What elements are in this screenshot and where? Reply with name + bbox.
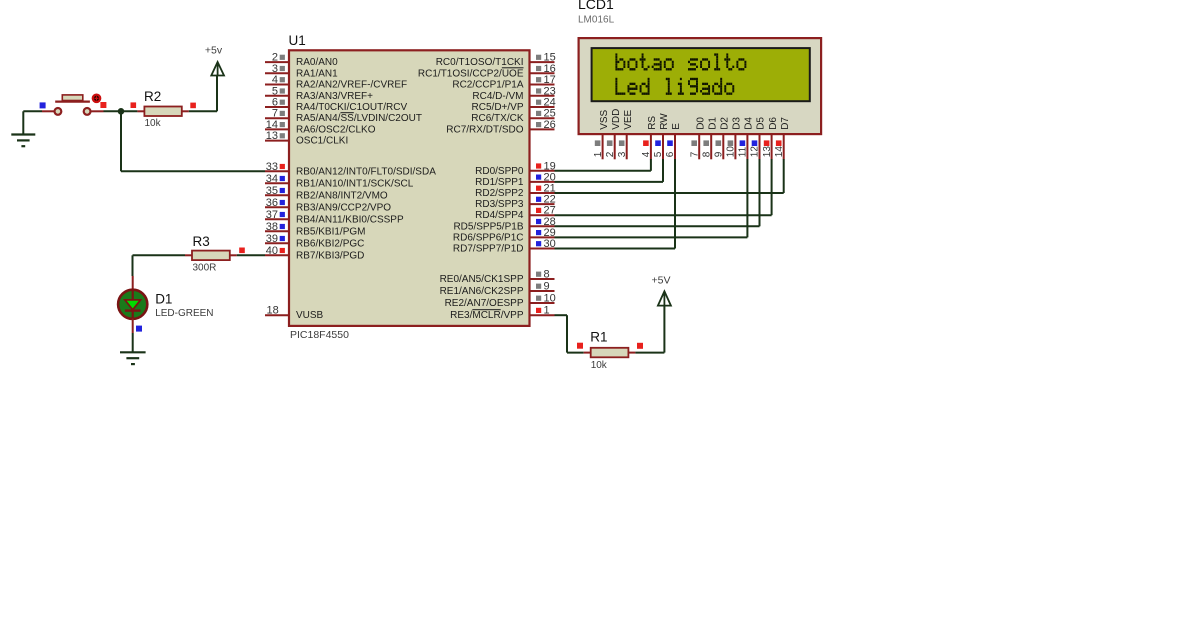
pin 36 (RB block)	[265, 197, 289, 209]
pin 40 (RB block)	[265, 245, 289, 257]
LCD screen	[592, 48, 810, 101]
svg-text:D1: D1	[707, 117, 718, 130]
LCD pin 5 RW	[653, 113, 670, 160]
wire button to junction to R2	[104, 110, 138, 112]
svg-text:4: 4	[272, 74, 278, 86]
svg-text:RA5/AN4/SS/LVDIN/C2OUT: RA5/AN4/SS/LVDIN/C2OUT	[296, 113, 422, 124]
svg-text:LCD1: LCD1	[578, 0, 614, 12]
svg-text:U1: U1	[289, 33, 306, 48]
svg-text:8: 8	[544, 269, 550, 281]
svg-text:D5: D5	[756, 117, 767, 130]
junction dot	[118, 108, 125, 115]
svg-text:R3: R3	[193, 234, 210, 249]
svg-text:E: E	[671, 123, 682, 130]
svg-text:RD6/SPP6/P1C: RD6/SPP6/P1C	[453, 232, 524, 243]
svg-text:25: 25	[544, 108, 556, 120]
svg-text:RA2/AN2/VREF-/CVREF: RA2/AN2/VREF-/CVREF	[296, 80, 407, 91]
LCD screen text line 1: botao solto	[615, 53, 746, 70]
svg-text:D3: D3	[732, 117, 743, 130]
svg-text:5: 5	[653, 151, 664, 157]
node red square (R3 right)	[239, 248, 245, 254]
svg-text:D7: D7	[780, 117, 791, 130]
pin 10 (RE block)	[530, 293, 556, 305]
svg-text:RC0/T1OSO/T1CKI: RC0/T1OSO/T1CKI	[436, 57, 524, 68]
svg-text:D1: D1	[155, 292, 172, 307]
svg-text:1: 1	[544, 305, 550, 317]
pin 28 (RD block)	[530, 216, 556, 228]
svg-text:+5V: +5V	[652, 275, 671, 287]
LCD pin 2 VDD	[605, 109, 622, 160]
svg-text:RD2/SPP2: RD2/SPP2	[475, 188, 524, 199]
svg-text:VUSB: VUSB	[296, 310, 324, 321]
LCD pin 11 D4	[738, 117, 755, 160]
svg-text:2: 2	[605, 151, 616, 157]
pin 14 (RA block)	[265, 119, 289, 131]
svg-text:RB4/AN11/KBI0/CSSPP: RB4/AN11/KBI0/CSSPP	[296, 214, 404, 225]
svg-text:6: 6	[665, 151, 676, 157]
svg-text:LED-GREEN: LED-GREEN	[155, 308, 213, 319]
svg-text:RA0/AN0: RA0/AN0	[296, 57, 338, 68]
pin 8 (RE block)	[530, 269, 555, 281]
svg-text:24: 24	[544, 97, 556, 109]
svg-text:15: 15	[544, 52, 556, 64]
svg-text:23: 23	[544, 85, 556, 97]
wire PIC to LCD pin 6	[555, 159, 676, 249]
wire R3 to LED D1	[133, 255, 186, 276]
node red square (R2 right)	[190, 103, 196, 109]
pin 27 (RD block)	[530, 205, 556, 217]
node red square (R1 right)	[637, 343, 643, 349]
chip pin name labels (right RE)	[440, 274, 524, 321]
svg-text:17: 17	[544, 74, 556, 86]
ground (button branch)	[11, 111, 35, 146]
svg-text:VDD: VDD	[611, 109, 622, 130]
svg-text:37: 37	[266, 209, 278, 221]
svg-text:300R: 300R	[193, 262, 217, 273]
svg-text:RB2/AN8/INT2/VMO: RB2/AN8/INT2/VMO	[296, 190, 388, 201]
svg-text:R2: R2	[144, 89, 161, 104]
svg-text:7: 7	[689, 151, 700, 157]
svg-text:RB1/AN10/INT1/SCK/SCL: RB1/AN10/INT1/SCK/SCL	[296, 178, 414, 189]
svg-text:RC2/CCP1/P1A: RC2/CCP1/P1A	[452, 80, 523, 91]
pin 22 (RD block)	[530, 194, 556, 206]
svg-text:4: 4	[641, 151, 652, 157]
svg-text:34: 34	[266, 173, 278, 185]
svg-text:10k: 10k	[591, 360, 608, 371]
svg-text:12: 12	[750, 146, 761, 158]
pin 7 (RA block)	[265, 108, 289, 120]
pin 16 (RC block)	[530, 63, 556, 75]
resistor R3	[185, 251, 237, 261]
chip U1 PIC18F4550 body	[289, 50, 530, 326]
svg-text:RC1/T1OSI/CCP2/UOE: RC1/T1OSI/CCP2/UOE	[418, 68, 524, 79]
LCD pin 6 E	[665, 123, 682, 160]
chip pin name labels (right RC)	[418, 57, 524, 135]
pin 38 (RB block)	[265, 221, 289, 233]
wire R3 to RB7 pin 40	[237, 254, 265, 256]
svg-text:RW: RW	[659, 113, 670, 130]
svg-text:VSS: VSS	[599, 109, 610, 129]
resistor R2	[137, 107, 188, 117]
node red square (button right)	[100, 102, 106, 108]
pin 35 (RB block)	[265, 185, 289, 197]
LCD pin 13 D6	[762, 117, 779, 160]
node blue square (button left)	[40, 102, 46, 108]
pin 9 (RE block)	[530, 281, 555, 293]
svg-text:26: 26	[544, 119, 556, 131]
chip pin name labels (right RD)	[453, 166, 524, 255]
svg-text:RE3/MCLR/VPP: RE3/MCLR/VPP	[450, 310, 524, 321]
wire PIC to LCD pin 12	[555, 159, 760, 226]
power +5v arrow	[211, 62, 224, 76]
pin 4 (RA block)	[265, 74, 289, 86]
wire PIC to LCD pin 4	[555, 159, 651, 171]
LCD pin 9 D2	[714, 117, 731, 160]
svg-text:14: 14	[774, 146, 785, 158]
svg-text:RC4/D-/VM: RC4/D-/VM	[472, 91, 523, 102]
svg-text:RB5/KBI1/PGM: RB5/KBI1/PGM	[296, 226, 365, 237]
svg-text:RB3/AN9/CCP2/VPO: RB3/AN9/CCP2/VPO	[296, 202, 391, 213]
pin 6 (RA block)	[265, 97, 289, 109]
pin 29 (RD block)	[530, 227, 556, 239]
svg-text:3: 3	[272, 63, 278, 75]
wire R1 to +5V arrow	[635, 306, 664, 353]
svg-text:8: 8	[701, 151, 712, 157]
LCD pin 10 D3	[726, 117, 743, 160]
svg-text:RD1/SPP1: RD1/SPP1	[475, 177, 524, 188]
svg-text:RD3/SPP3: RD3/SPP3	[475, 199, 524, 210]
svg-text:RB7/KBI3/PGD: RB7/KBI3/PGD	[296, 250, 364, 261]
pin 30 (RD block)	[530, 238, 556, 250]
svg-text:40: 40	[266, 245, 278, 257]
pin 39 (RB block)	[265, 233, 289, 245]
svg-text:RE2/AN7/OESPP: RE2/AN7/OESPP	[445, 298, 524, 309]
svg-text:10: 10	[544, 293, 556, 305]
LCD pin 7 D0	[689, 117, 706, 160]
LCD pin 4 RS	[641, 116, 658, 160]
chip pin name labels (left RB)	[296, 166, 436, 261]
pin 20 (RD block)	[530, 171, 556, 183]
pin 21 (RD block)	[530, 183, 556, 195]
svg-text:6: 6	[272, 97, 278, 109]
LCD screen text line 2: Led ligado	[615, 78, 734, 95]
node red square (R1 left)	[577, 343, 583, 349]
svg-text:9: 9	[544, 281, 550, 293]
svg-text:+5v: +5v	[205, 45, 223, 57]
LCD pin 12 D5	[750, 117, 767, 160]
power +5V arrow (bottom)	[658, 291, 671, 305]
LCD LM016L body	[579, 38, 822, 134]
svg-text:13: 13	[266, 130, 278, 142]
wire PIC to LCD pin 14	[555, 159, 784, 193]
svg-text:RA3/AN3/VREF+: RA3/AN3/VREF+	[296, 91, 373, 102]
svg-text:OSC1/CLKI: OSC1/CLKI	[296, 136, 348, 147]
svg-text:3: 3	[617, 151, 628, 157]
svg-text:RD4/SPP4: RD4/SPP4	[475, 210, 524, 221]
wire PIC to LCD pin 13	[555, 159, 772, 215]
wire junction to RB0 pin 33	[121, 111, 265, 171]
chip pin name labels (left RA)	[296, 57, 422, 147]
svg-text:D6: D6	[768, 117, 779, 130]
pin 24 (RC block)	[530, 97, 556, 109]
button actuator marker	[93, 95, 100, 102]
pin 18 VUSB	[265, 305, 289, 317]
svg-text:39: 39	[266, 233, 278, 245]
svg-text:18: 18	[267, 305, 279, 317]
svg-text:RB6/KBI2/PGC: RB6/KBI2/PGC	[296, 238, 364, 249]
svg-text:13: 13	[762, 146, 773, 158]
wire LED to ground	[132, 333, 134, 352]
svg-text:RA6/OSC2/CLKO: RA6/OSC2/CLKO	[296, 124, 376, 135]
svg-text:14: 14	[266, 119, 278, 131]
svg-text:30: 30	[544, 238, 556, 250]
push button	[42, 95, 104, 115]
svg-text:1: 1	[593, 151, 604, 157]
svg-text:33: 33	[266, 161, 278, 173]
pin 19 (RD block)	[530, 160, 556, 172]
svg-text:RA1/AN1: RA1/AN1	[296, 68, 338, 79]
svg-text:RD5/SPP5/P1B: RD5/SPP5/P1B	[453, 221, 523, 232]
pin 5 (RA block)	[265, 85, 289, 97]
pin 34 (RB block)	[265, 173, 289, 185]
svg-text:5: 5	[272, 85, 278, 97]
LCD pin 1 VSS	[593, 109, 610, 159]
svg-text:D0: D0	[695, 117, 706, 130]
pin 1 (RE block)	[530, 305, 555, 317]
svg-text:PIC18F4550: PIC18F4550	[290, 329, 349, 341]
pin 3 (RA block)	[265, 63, 289, 75]
wire ground to button	[23, 110, 42, 112]
svg-text:10k: 10k	[145, 118, 162, 129]
svg-text:RD7/SPP7/P1D: RD7/SPP7/P1D	[453, 244, 524, 255]
resistor R1	[584, 348, 636, 358]
wire R2 to +5v arrow	[189, 76, 217, 112]
pin 23 (RC block)	[530, 85, 556, 97]
svg-text:RC7/RX/DT/SDO: RC7/RX/DT/SDO	[446, 124, 523, 135]
svg-text:D2: D2	[720, 117, 731, 130]
svg-text:RD0/SPP0: RD0/SPP0	[475, 166, 524, 177]
svg-text:35: 35	[266, 185, 278, 197]
svg-text:RS: RS	[647, 116, 658, 130]
pin 2 (RA block)	[265, 52, 289, 64]
LCD pin 14 D7	[774, 117, 791, 160]
pin 37 (RB block)	[265, 209, 289, 221]
wire PIC to LCD pin 11	[555, 159, 748, 237]
svg-text:2: 2	[272, 52, 278, 64]
node red square (R2 left)	[131, 102, 137, 108]
svg-text:11: 11	[738, 146, 749, 157]
pin 26 (RC block)	[530, 119, 556, 131]
LCD pin 8 D1	[701, 117, 718, 160]
pin 15 (RC block)	[530, 52, 556, 64]
svg-text:R1: R1	[590, 329, 607, 344]
ground (LED branch)	[120, 352, 146, 364]
wire RE3 pin1 to R1	[555, 315, 584, 352]
svg-text:D4: D4	[744, 117, 755, 130]
svg-text:10: 10	[726, 146, 737, 158]
svg-text:RC5/D+/VP: RC5/D+/VP	[472, 102, 524, 113]
svg-text:9: 9	[714, 151, 725, 157]
svg-text:16: 16	[544, 63, 556, 75]
svg-text:38: 38	[266, 221, 278, 233]
svg-text:LM016L: LM016L	[578, 14, 615, 25]
LCD pin 3 VEE	[617, 109, 634, 159]
pin 17 (RC block)	[530, 74, 556, 86]
wire PIC to LCD pin 5	[555, 159, 664, 182]
svg-text:RA4/T0CKI/C1OUT/RCV: RA4/T0CKI/C1OUT/RCV	[296, 102, 407, 113]
pin 13 (RA block)	[265, 130, 289, 142]
node blue square (LED cathode)	[136, 326, 142, 332]
LED D1	[118, 276, 147, 333]
pin 25 (RC block)	[530, 108, 556, 120]
svg-text:7: 7	[272, 108, 278, 120]
svg-text:RC6/TX/CK: RC6/TX/CK	[471, 113, 524, 124]
svg-text:36: 36	[266, 197, 278, 209]
svg-text:RB0/AN12/INT0/FLT0/SDI/SDA: RB0/AN12/INT0/FLT0/SDI/SDA	[296, 166, 436, 177]
pin 33 (RB block)	[265, 161, 289, 173]
svg-text:RE1/AN6/CK2SPP: RE1/AN6/CK2SPP	[440, 286, 524, 297]
svg-text:RE0/AN5/CK1SPP: RE0/AN5/CK1SPP	[440, 274, 524, 285]
svg-text:VEE: VEE	[623, 109, 634, 129]
